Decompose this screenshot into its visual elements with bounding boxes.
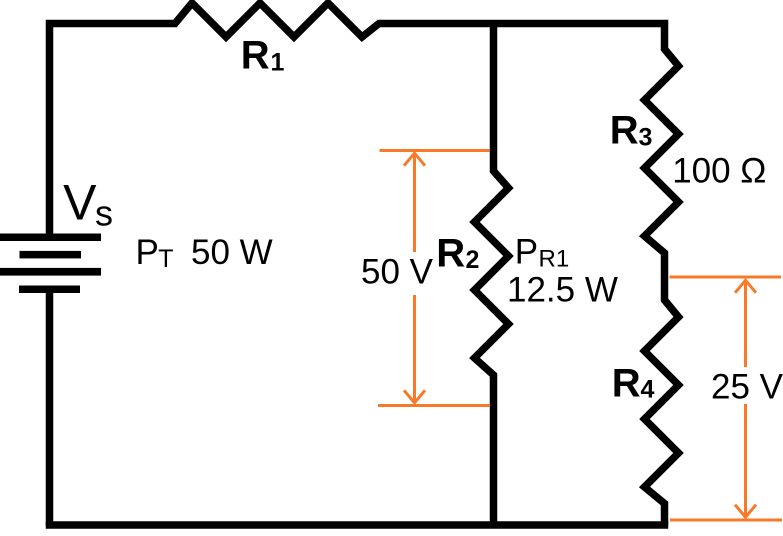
svg-text:V: V — [63, 174, 97, 230]
svg-text:100 Ω: 100 Ω — [672, 152, 766, 191]
svg-text:T: T — [158, 245, 173, 273]
svg-text:R1: R1 — [539, 246, 570, 273]
svg-text:R: R — [612, 362, 641, 406]
svg-text:s: s — [95, 193, 113, 234]
svg-text:50 W: 50 W — [191, 233, 273, 272]
svg-text:3: 3 — [639, 124, 653, 152]
svg-text:25 V: 25 V — [711, 368, 783, 407]
svg-text:R: R — [610, 109, 639, 153]
svg-text:R: R — [241, 34, 270, 78]
svg-text:4: 4 — [641, 376, 655, 404]
svg-text:50 V: 50 V — [361, 253, 434, 292]
svg-text:P: P — [136, 233, 159, 272]
svg-text:R: R — [436, 232, 465, 276]
svg-text:P: P — [515, 233, 538, 272]
svg-text:1: 1 — [271, 49, 285, 77]
svg-text:2: 2 — [466, 246, 480, 274]
svg-text:12.5 W: 12.5 W — [507, 270, 618, 309]
